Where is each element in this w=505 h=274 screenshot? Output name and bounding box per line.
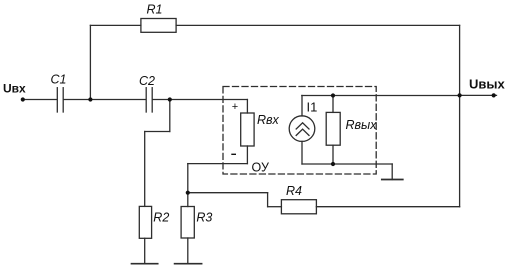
svg-text:C1: C1 xyxy=(51,73,67,87)
wire Rvx bottom lead xyxy=(246,146,248,164)
resistor R1 xyxy=(141,19,176,33)
wire down to R2 xyxy=(144,132,146,207)
wire R4 right lead xyxy=(316,206,459,208)
svg-text:C2: C2 xyxy=(139,74,155,88)
wire R1 right lead xyxy=(176,24,460,26)
svg-text:R2: R2 xyxy=(153,211,169,225)
wire input rail seg2 xyxy=(64,99,146,101)
svg-text:Rвх: Rвх xyxy=(257,113,280,127)
wire down to node xyxy=(187,164,189,207)
svg-text:R3: R3 xyxy=(196,211,212,225)
wire C2 branch down xyxy=(169,100,171,132)
I1 chevron upper xyxy=(296,123,309,129)
I1 chevron lower xyxy=(296,129,309,135)
node output junction xyxy=(458,93,462,97)
wire I1 bottom lead xyxy=(301,141,303,164)
wire I1 top lead xyxy=(301,96,303,117)
svg-text:I1: I1 xyxy=(307,100,318,115)
op-amp dashed box OU xyxy=(223,87,376,175)
wire R1 branch vertical xyxy=(89,25,91,99)
ground R3 xyxy=(175,263,202,265)
svg-text:Uвых: Uвых xyxy=(469,76,505,91)
capacitor C1 xyxy=(57,88,63,112)
wire Rvyx top lead xyxy=(332,96,334,113)
wire node to R4 xyxy=(188,192,268,194)
resistor R4 xyxy=(281,200,316,214)
wire ground drop xyxy=(391,164,393,180)
svg-text:R4: R4 xyxy=(286,184,302,198)
resistor R2 xyxy=(139,206,151,238)
wire step left xyxy=(145,131,170,133)
svg-text:+: + xyxy=(232,101,238,113)
label OU background xyxy=(250,161,272,173)
resistor Rvx xyxy=(241,113,254,146)
wire right rail xyxy=(459,25,461,206)
wire internal bottom rail xyxy=(302,163,392,165)
wire input rail seg1 xyxy=(23,99,57,101)
svg-text:Uвх: Uвх xyxy=(3,82,26,96)
wire minus path left xyxy=(188,163,248,165)
wire internal top rail xyxy=(302,95,460,97)
wire Rvx top lead xyxy=(246,100,248,114)
svg-text:ОУ: ОУ xyxy=(252,161,269,175)
wire R3 bottom lead xyxy=(187,238,189,264)
current source I1 xyxy=(289,116,315,142)
node C2 branch xyxy=(168,97,172,101)
resistor R3 xyxy=(181,207,194,239)
node Rvyx bottom xyxy=(331,162,335,166)
node R3 R4 junction xyxy=(186,191,190,195)
resistor Rvyx xyxy=(326,112,340,145)
wire input rail seg3 xyxy=(153,99,248,101)
wire R4 step down xyxy=(267,193,269,207)
ground R2 xyxy=(132,263,158,265)
wire output xyxy=(460,94,497,96)
node input terminal xyxy=(21,97,25,101)
ground op-amp xyxy=(382,179,403,181)
svg-text:Rвых: Rвых xyxy=(346,118,378,132)
capacitor C2 xyxy=(146,88,152,112)
wire Rvyx bottom lead xyxy=(332,145,334,164)
node R1 branch xyxy=(88,97,92,101)
node Rvyx top xyxy=(331,93,335,97)
node output terminal xyxy=(492,93,496,97)
wire R2 bottom lead xyxy=(144,238,146,263)
svg-text:R1: R1 xyxy=(147,3,163,17)
wire R1 left lead xyxy=(90,24,140,26)
wire R4 left lead xyxy=(268,206,282,208)
label minus xyxy=(231,153,236,155)
